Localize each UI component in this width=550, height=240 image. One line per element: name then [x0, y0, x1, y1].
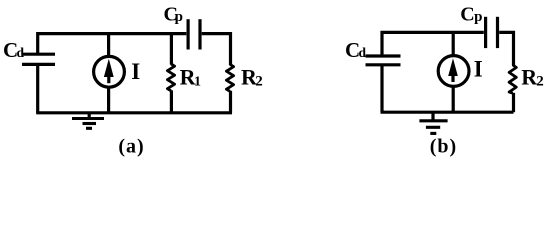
svg-text:2: 2 — [536, 74, 544, 90]
svg-text:d: d — [17, 45, 25, 60]
svg-text:(b): (b) — [430, 136, 457, 158]
svg-text:1: 1 — [194, 74, 201, 89]
svg-text:(a): (a) — [118, 136, 144, 158]
svg-text:p: p — [474, 9, 482, 25]
svg-text:p: p — [175, 9, 183, 25]
svg-text:d: d — [359, 45, 367, 60]
svg-text:2: 2 — [255, 74, 263, 90]
svg-text:I: I — [131, 59, 140, 84]
svg-text:C: C — [460, 4, 474, 26]
svg-text:I: I — [474, 57, 483, 82]
